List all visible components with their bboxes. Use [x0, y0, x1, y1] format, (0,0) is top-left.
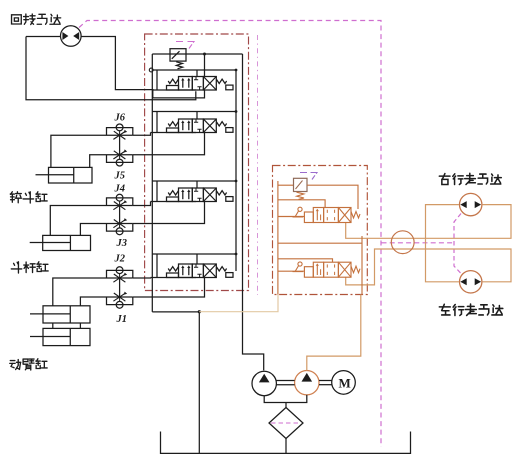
svg-text:J4: J4 — [114, 184, 126, 195]
svg-text:J5: J5 — [114, 171, 126, 182]
svg-text:J6: J6 — [114, 113, 126, 124]
svg-text:J1: J1 — [116, 314, 128, 325]
svg-text:M: M — [339, 376, 351, 391]
svg-text:J2: J2 — [114, 254, 126, 265]
svg-text:J3: J3 — [116, 238, 128, 249]
